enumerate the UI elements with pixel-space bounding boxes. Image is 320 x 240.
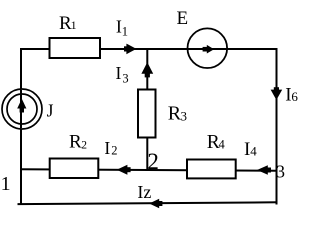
label R2 xyxy=(69,131,87,152)
label R1 xyxy=(59,13,77,34)
arrow Iz xyxy=(149,199,162,208)
E arrow xyxy=(203,45,215,54)
svg-text:2: 2 xyxy=(147,149,159,174)
label R4 xyxy=(207,132,226,153)
wire bottom rail xyxy=(18,202,278,204)
svg-text:Iz: Iz xyxy=(137,182,151,202)
arrow I2 xyxy=(117,165,131,175)
svg-text:2: 2 xyxy=(111,143,117,157)
wire right vertical xyxy=(276,48,278,205)
svg-text:I: I xyxy=(104,138,110,158)
label R3 xyxy=(168,103,187,125)
svg-text:1: 1 xyxy=(1,173,11,195)
svg-text:4: 4 xyxy=(250,143,257,158)
svg-text:E: E xyxy=(177,8,189,29)
svg-text:4: 4 xyxy=(219,137,226,151)
voltage source E circle xyxy=(188,28,228,68)
wire R3 branch vertical xyxy=(146,48,148,171)
current source J outer circle xyxy=(2,89,42,129)
label I2 xyxy=(104,138,117,158)
wire top rail xyxy=(21,48,277,50)
svg-text:1: 1 xyxy=(122,24,128,38)
arrow I1 xyxy=(124,44,136,55)
wire left vertical xyxy=(20,48,22,205)
svg-text:3: 3 xyxy=(181,108,188,123)
svg-text:1: 1 xyxy=(71,18,77,32)
wire through J xyxy=(20,90,22,128)
label I4 xyxy=(244,139,257,160)
J arrow xyxy=(17,99,26,113)
resistor R1 xyxy=(50,38,101,58)
svg-text:J: J xyxy=(47,100,54,120)
arrow I3 xyxy=(141,62,153,77)
resistor R3 xyxy=(138,90,156,138)
current source J inner circle xyxy=(7,94,37,124)
wire middle rail node1-2-3 xyxy=(20,169,278,171)
arrow I6 xyxy=(271,87,283,100)
label I1 xyxy=(116,17,128,39)
svg-text:I: I xyxy=(116,63,122,83)
svg-text:R: R xyxy=(69,131,82,152)
svg-text:3: 3 xyxy=(122,72,128,86)
svg-text:6: 6 xyxy=(291,89,298,104)
resistor R4 xyxy=(187,160,236,179)
arrow I4 xyxy=(257,165,271,174)
resistor R2 xyxy=(50,159,99,179)
svg-text:3: 3 xyxy=(276,161,285,181)
label I6 xyxy=(285,85,298,106)
wire through E xyxy=(188,48,227,50)
svg-text:2: 2 xyxy=(81,140,87,152)
label I3 xyxy=(116,63,129,86)
